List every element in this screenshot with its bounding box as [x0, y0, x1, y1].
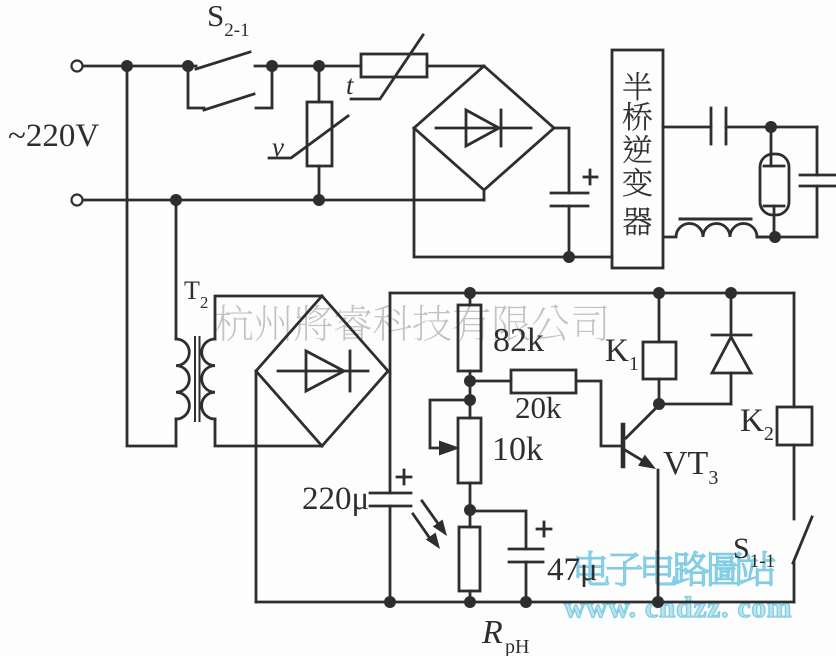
wire 20k to base — [576, 381, 621, 446]
transformer T2 secondary bottom lead — [215, 419, 322, 446]
node dot 9 at 470,293 — [464, 287, 476, 299]
watermark cyan site name — [577, 551, 775, 586]
thermistor t body — [361, 54, 427, 77]
transistor VT3 collector — [626, 406, 658, 438]
svg-text:~220V: ~220V — [8, 118, 99, 154]
bridge1 internal diode line — [436, 127, 531, 130]
node dot 17 at 470,602 — [464, 596, 476, 608]
transformer T2 primary winding — [176, 339, 189, 419]
node dot 1 at 188,66 — [182, 60, 194, 72]
relay K1 bottom lead — [658, 379, 661, 404]
capacitor coupling plates — [710, 108, 713, 144]
wire bottom rail — [256, 601, 794, 604]
capacitor resonant plates — [800, 174, 836, 177]
wire right down to cap2 — [816, 127, 819, 175]
svg-text:47μ: 47μ — [547, 552, 598, 588]
bridge2 internal diode line — [278, 370, 368, 373]
varistor v bottom lead — [318, 166, 321, 200]
relay K1 top lead — [658, 293, 661, 342]
node dot 6 at 569,257 — [563, 251, 575, 263]
watermark grey company text — [215, 304, 607, 341]
transistor VT3 emitter — [625, 450, 650, 465]
plus sign filter cap — [584, 176, 597, 179]
node dot 7 at 771,127 — [765, 121, 777, 133]
wire coupling cap to lamp top — [726, 126, 817, 129]
wire top AC line — [83, 65, 196, 68]
resistor 82k body — [458, 305, 481, 371]
node dot 12 at 470,381 — [464, 375, 476, 387]
node dot 14 at 470,510 — [464, 504, 476, 516]
node dot 16 at 390,602 — [384, 596, 396, 608]
transformer T2 core — [194, 337, 196, 421]
wire lower AC stub to bridge1 bottom — [483, 190, 486, 200]
capacitor 220u lower lead — [389, 506, 392, 602]
inductor ballast — [664, 224, 775, 238]
switch S1-1 bottom lead — [793, 563, 796, 602]
bridge2 internal diode cathode bar — [349, 351, 352, 391]
svg-text:www. cndzz. com: www. cndzz. com — [564, 592, 792, 624]
transformer T2 secondary top lead — [215, 296, 322, 339]
wire lower AC line — [83, 199, 484, 202]
inductor core bar — [680, 218, 751, 221]
light arrow 2 — [413, 514, 429, 537]
varistor v top lead — [318, 66, 321, 102]
switch S1-1 blade — [793, 517, 812, 563]
switch S2-1 blade upper — [196, 52, 250, 69]
wire bridge2 plus down to 220u cap — [389, 373, 392, 493]
thermistor t strike — [351, 35, 423, 99]
label half-bridge inverter text — [623, 72, 651, 100]
resistor 82k bottom lead — [469, 371, 472, 418]
diode flyback cathode bar — [712, 334, 751, 337]
transistor VT3 base bar — [621, 425, 626, 466]
wire top AC resumes after switch — [255, 65, 361, 68]
svg-text:v: v — [272, 132, 284, 162]
transformer T2 primary leads — [175, 200, 178, 339]
bridge1 internal diode triangle — [466, 110, 499, 146]
half-bridge inverter box — [612, 50, 663, 268]
bridge1 internal diode cathode bar — [500, 110, 503, 146]
node dot 11 at 731,293 — [725, 287, 737, 299]
svg-text:82k: 82k — [493, 322, 544, 359]
node dot 2 at 272,66 — [266, 60, 278, 72]
capacitor 220u plates — [370, 492, 411, 495]
capacitor filter plates — [551, 192, 588, 195]
svg-text:20k: 20k — [515, 390, 562, 425]
photoresistor RpH bottom lead — [469, 591, 472, 602]
potentiometer 10k wiper bracket — [430, 400, 470, 448]
diode flyback bottom lead — [730, 373, 733, 404]
wire bridge2 minus down-left rail — [255, 371, 258, 602]
wire thermistor to bridge1 top — [427, 65, 484, 68]
relay K1 body — [643, 342, 676, 379]
potentiometer 10k wiper arrow — [439, 441, 460, 456]
node dot 18 at 526,602 — [520, 596, 532, 608]
relay K2 bottom lead — [793, 445, 796, 519]
bridge2 internal diode triangle — [306, 351, 344, 391]
lamp top electrode — [770, 127, 773, 166]
transformer T2 secondary winding — [202, 339, 215, 419]
resistor 20k body — [511, 370, 576, 393]
light arrow 1 — [422, 501, 437, 522]
svg-text:pH: pH — [505, 636, 529, 656]
wire bridge1 plus to cap — [554, 128, 569, 193]
plus sign 220u — [397, 476, 411, 479]
potentiometer 10k body — [458, 418, 481, 483]
terminal upper ~220V — [72, 61, 83, 72]
photoresistor RpH body — [459, 527, 480, 591]
resistor 82k top lead — [469, 293, 472, 305]
varistor v strike — [269, 116, 348, 158]
switch S2-1 lower pole left lead — [188, 66, 204, 108]
wire inverter output top — [663, 126, 711, 129]
node dot 8 at 775,237 — [769, 231, 781, 243]
wire bridge2 plus up to top rail — [389, 293, 392, 373]
relay K2 body — [777, 407, 812, 445]
capacitor filter lower lead — [568, 206, 571, 257]
lamp bottom electrode — [764, 205, 784, 208]
resistor 20k left lead — [470, 380, 511, 383]
wire top supply rail — [390, 292, 794, 295]
node dot 3 at 319,66 — [313, 60, 325, 72]
lamp tube body — [760, 154, 789, 215]
switch S2-1 lower pole right lead — [256, 66, 272, 108]
capacitor 47u lower lead — [525, 562, 528, 602]
terminal lower ~220V — [72, 195, 83, 206]
node dot 19 at 658,602 — [652, 596, 664, 608]
diode flyback triangle — [712, 337, 751, 373]
node dot 0 at 127,66 — [121, 60, 133, 72]
wire left rail from top AC — [127, 66, 176, 446]
varistor v body — [307, 102, 332, 166]
svg-text:R: R — [481, 614, 503, 651]
node dot 5 at 319,200 — [313, 194, 325, 206]
wire RpH top to 47u — [470, 511, 526, 549]
diode flyback top lead — [730, 293, 733, 335]
svg-text:10k: 10k — [492, 431, 543, 468]
bridge rectifier 2 diamond — [256, 296, 388, 446]
transistor VT3 emitter lead down — [657, 470, 660, 602]
svg-text:220μ: 220μ — [302, 481, 369, 517]
wire top rail right corner down — [793, 293, 796, 407]
wire K1 bottom to diode anode — [659, 403, 731, 406]
switch S2-1 blade lower — [204, 94, 254, 110]
wire cap2 down to lamp bottom line — [757, 186, 817, 237]
node dot 4 at 176,200 — [170, 194, 182, 206]
potentiometer 10k bottom lead — [469, 483, 472, 527]
wire bridge1 minus rail — [414, 128, 612, 257]
plus sign 47u — [537, 528, 551, 531]
node dot 15 at 659,404 — [653, 398, 665, 410]
node dot 13 at 470,400 — [464, 394, 476, 406]
bridge rectifier 1 diamond — [414, 66, 554, 190]
node dot 10 at 659,293 — [653, 287, 665, 299]
capacitor 47u plates — [509, 548, 543, 551]
